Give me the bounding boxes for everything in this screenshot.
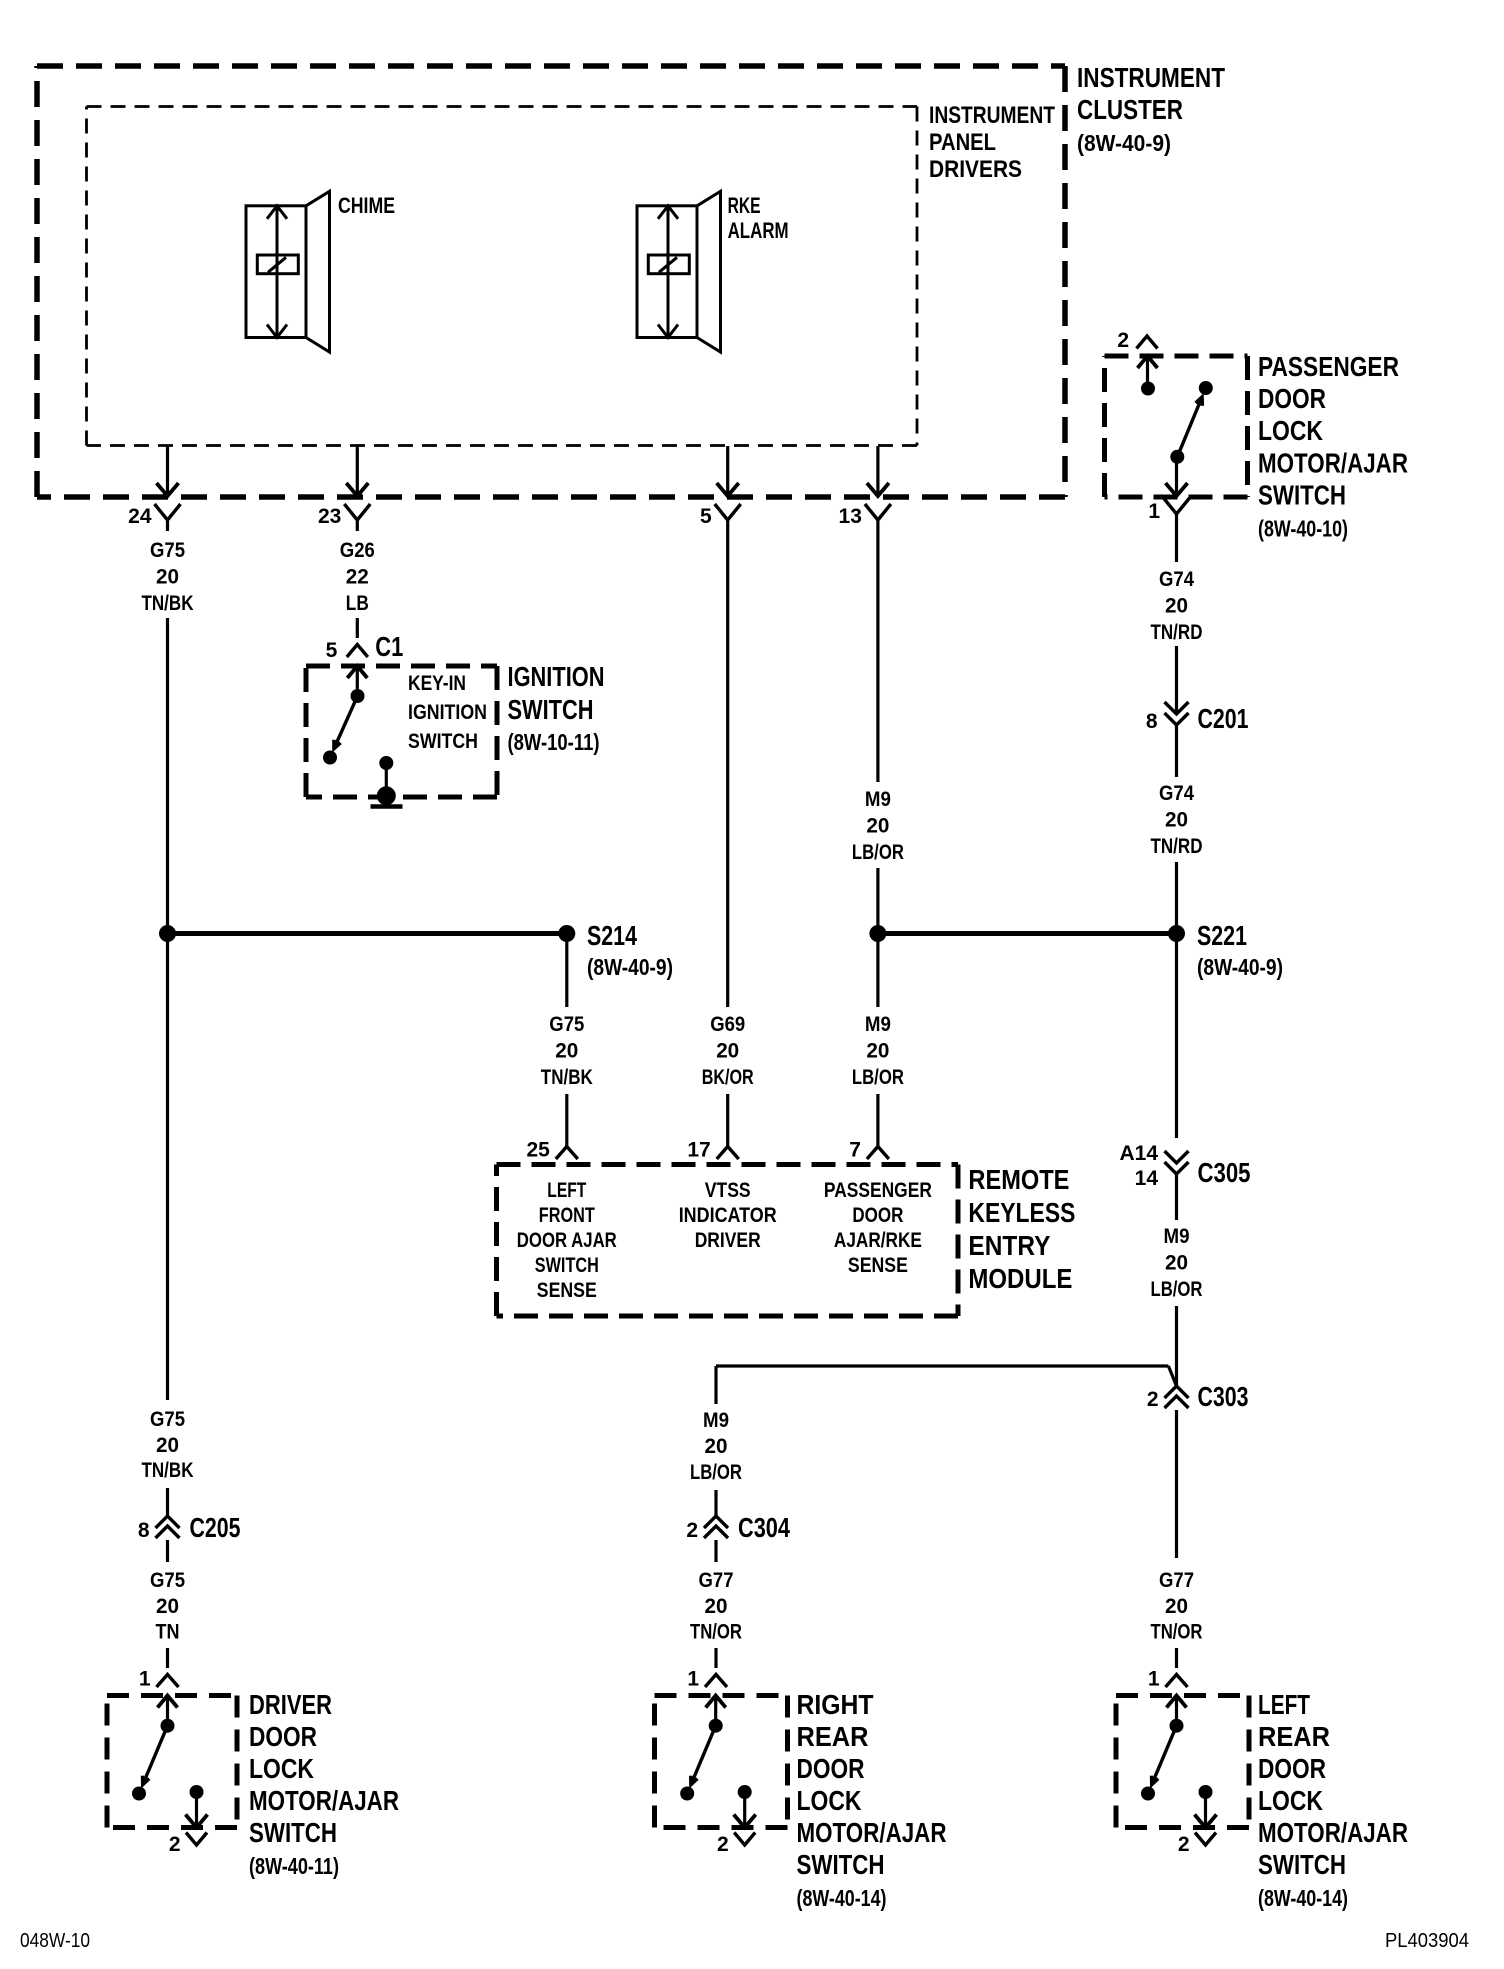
label PASSENGER DOOR LOCK MOTOR/AJAR SWITCH [1258,351,1408,542]
svg-text:TN/BK: TN/BK [142,592,194,615]
svg-text:8: 8 [138,1519,150,1542]
driver door lock motor/ajar switch ajar switch SW [132,1719,175,1801]
svg-text:G75: G75 [150,539,185,562]
svg-text:M9: M9 [865,1013,891,1036]
label INSTRUMENT PANEL DRIVERS [929,102,1055,183]
pin number 1 [687,1668,699,1691]
label left rear door lock motor/ajar switch [1258,1689,1408,1911]
svg-text:LOCK: LOCK [797,1785,862,1816]
svg-text:SWITCH: SWITCH [1258,1849,1346,1880]
chime indicator [246,191,330,352]
passenger pin 1 connector fork [1164,498,1190,525]
svg-text:M9: M9 [1164,1225,1190,1248]
wire M9 upper [876,531,879,782]
svg-text:G75: G75 [150,1569,185,1592]
svg-text:20: 20 [866,815,889,838]
svg-text:5: 5 [700,505,712,528]
svg-text:20: 20 [1165,809,1188,832]
svg-text:MOTOR/AJAR: MOTOR/AJAR [249,1785,399,1816]
pin number 2 [1178,1833,1190,1856]
svg-text:G69: G69 [710,1013,745,1036]
svg-text:REAR: REAR [1258,1721,1330,1752]
svg-text:PASSENGER: PASSENGER [1258,351,1399,382]
svg-text:DOOR: DOOR [797,1753,865,1784]
svg-text:PANEL: PANEL [929,129,996,156]
svg-text:(8W-40-14): (8W-40-14) [797,1885,887,1911]
wire [714,1540,717,1562]
right rear door lock motor/ajar switch ajar switch SW [680,1719,723,1801]
splice S214 wire [168,931,567,936]
svg-text:13: 13 [839,505,862,528]
wire label G75 20 TN/BK [142,539,194,615]
pin number A14 14 [1119,1142,1158,1190]
right rear door lock motor/ajar switch box (dashed) [655,1696,788,1828]
splice S214 dot [558,925,575,942]
svg-text:LB/OR: LB/OR [690,1461,742,1484]
svg-text:23: 23 [318,505,341,528]
svg-text:1: 1 [1148,1668,1160,1691]
pin number 1 [1148,500,1160,523]
ignition pin 5 arrow [347,666,367,689]
svg-text:PASSENGER: PASSENGER [824,1179,932,1202]
wire label G77 20 TN/OR (2) [690,1569,742,1644]
svg-text:TN/BK: TN/BK [142,1459,194,1482]
label INSTRUMENT CLUSTER [1077,62,1225,156]
wire label G74 20 TN/RD [1151,568,1203,644]
cluster pin 24 connector fork [155,504,181,531]
svg-text:MOTOR/AJAR: MOTOR/AJAR [1258,1817,1408,1848]
wire label G69 20 BK/OR [702,1013,754,1089]
wire [714,1490,717,1516]
svg-text:DOOR: DOOR [852,1204,903,1227]
svg-text:SWITCH: SWITCH [408,730,478,753]
svg-text:G75: G75 [549,1013,584,1036]
svg-text:2: 2 [169,1833,181,1856]
svg-text:INSTRUMENT: INSTRUMENT [929,102,1055,129]
svg-text:20: 20 [705,1595,728,1618]
left rear pin 1 connector [1166,1675,1188,1688]
passenger pin 1 arrow [1166,462,1188,496]
pin number 1 [1148,1668,1160,1691]
svg-text:G75: G75 [150,1408,185,1431]
label S221 [1197,920,1283,980]
svg-text:5: 5 [326,639,338,662]
svg-text:2: 2 [1147,1388,1159,1411]
svg-text:1: 1 [687,1668,699,1691]
wire [714,1366,717,1404]
svg-text:KEY-IN: KEY-IN [408,672,466,695]
cluster pin 23 arrow [346,446,368,496]
cluster pin 24 arrow [157,446,179,496]
left rear door lock motor/ajar switch motor contact dot [1199,1785,1213,1799]
connector C1 pin 5 [347,645,368,658]
wire label M9 20 LB/OR (3) [1151,1225,1203,1301]
pin number 2 [169,1833,181,1856]
wire [166,1540,169,1562]
cluster pin 23 connector fork [344,504,370,531]
svg-text:(8W-40-11): (8W-40-11) [249,1853,339,1879]
label LEFT FRONT DOOR AJAR SWITCH SENSE [517,1179,617,1302]
svg-text:2: 2 [686,1519,698,1542]
right rear door lock motor/ajar switch pin 2 arrow [734,1792,756,1828]
passenger pin 2 connector [1137,336,1158,349]
label CHIME [338,193,395,218]
pin number 5 [700,505,712,528]
svg-text:SWITCH: SWITCH [508,694,594,725]
left rear door lock motor/ajar switch ajar switch SW [1141,1719,1184,1801]
left rear door lock motor/ajar switch box (dashed) [1116,1696,1249,1828]
connector C205 [156,1516,180,1538]
sheet number 048W-10 [20,1930,90,1952]
driver door lock motor/ajar switch pin 1 arrow [158,1696,178,1720]
right rear door lock motor/ajar switch pin 1 arrow [706,1696,726,1720]
svg-text:1: 1 [1148,500,1160,523]
svg-text:20: 20 [1165,1252,1188,1275]
pin number 5 [326,639,338,662]
label C205 [190,1512,241,1543]
pin number 2 [1147,1388,1159,1411]
svg-text:22: 22 [346,566,369,589]
svg-text:2: 2 [1117,329,1129,352]
driver door lock motor/ajar switch pin 2 arrow [186,1792,208,1828]
pin number 8 [1146,710,1158,733]
RKE pin 7 connector [867,1147,889,1160]
svg-text:SWITCH: SWITCH [249,1817,337,1848]
wire label G74 20 TN/RD (2) [1151,782,1203,858]
svg-text:SWITCH: SWITCH [797,1849,885,1880]
wire [1175,1306,1178,1386]
instrument cluster box (dashed) [37,66,1065,497]
svg-text:C201: C201 [1198,703,1249,734]
svg-text:7: 7 [849,1139,861,1162]
splice junction dot [159,925,176,942]
svg-text:CHIME: CHIME [338,193,395,218]
svg-text:SWITCH: SWITCH [535,1254,599,1277]
svg-text:LEFT: LEFT [547,1179,586,1202]
svg-text:C305: C305 [1198,1157,1251,1188]
splice S221 wire [878,931,1177,936]
passenger door lock box (dashed) [1105,356,1248,497]
pin number 13 [839,505,862,528]
svg-text:1: 1 [139,1668,151,1691]
svg-text:DRIVER: DRIVER [695,1229,761,1252]
svg-text:TN/RD: TN/RD [1151,835,1203,858]
svg-text:PL403904: PL403904 [1385,1930,1469,1952]
wire label G75 20 TN [150,1569,185,1644]
pin number 7 [849,1139,861,1162]
svg-text:M9: M9 [865,788,891,811]
svg-text:TN/OR: TN/OR [690,1621,742,1644]
pin number 1 [139,1668,151,1691]
left rear door lock motor/ajar switch pin 2 arrow [1195,1792,1217,1828]
svg-text:DRIVER: DRIVER [249,1689,332,1720]
ground [371,786,403,806]
svg-text:VTSS: VTSS [705,1179,751,1202]
key-in switch SW [323,689,365,765]
wire [1175,1648,1178,1668]
svg-text:C205: C205 [190,1512,241,1543]
svg-text:LOCK: LOCK [1258,1785,1323,1816]
svg-text:C304: C304 [738,1512,790,1543]
svg-text:IGNITION: IGNITION [508,661,605,692]
label right rear door lock motor/ajar switch [797,1689,947,1911]
wire [1175,725,1178,777]
svg-text:SENSE: SENSE [537,1279,597,1302]
drawing number PL403904 [1385,1930,1469,1952]
svg-text:A14: A14 [1119,1142,1158,1165]
wire [166,618,169,1400]
wire [1175,862,1178,934]
svg-text:(8W-40-9): (8W-40-9) [1197,954,1283,980]
wire label M9 20 LB/OR [852,788,904,864]
wire [726,1094,729,1147]
svg-text:LOCK: LOCK [249,1753,314,1784]
svg-text:G74: G74 [1159,782,1194,805]
wire label M9 20 LB/OR (4) [690,1409,742,1484]
right rear door lock motor/ajar switch motor contact dot [738,1785,752,1799]
svg-text:INSTRUMENT: INSTRUMENT [1077,62,1225,93]
wire [876,1094,879,1147]
pin number 24 [128,505,152,528]
connector C304 [704,1516,728,1538]
pin number 17 [687,1139,710,1162]
svg-text:FRONT: FRONT [539,1204,595,1227]
label RKE ALARM [728,193,789,243]
svg-text:ENTRY: ENTRY [968,1230,1050,1261]
driver door lock motor/ajar switch pin 2 connector [186,1833,207,1846]
svg-text:DOOR: DOOR [1258,1753,1326,1784]
label VTSS INDICATOR DRIVER [679,1179,777,1252]
svg-text:048W-10: 048W-10 [20,1930,90,1952]
connector C303 [1165,1386,1189,1408]
right rear door lock motor/ajar switch pin 2 connector [734,1833,755,1846]
svg-text:LB/OR: LB/OR [1151,1278,1203,1301]
svg-text:DOOR AJAR: DOOR AJAR [517,1229,617,1252]
branch wire to C304 [716,1366,1177,1386]
pin number 25 [526,1139,550,1162]
svg-text:8: 8 [1146,710,1158,733]
svg-text:RKE: RKE [728,193,761,218]
svg-text:G26: G26 [340,539,375,562]
svg-text:LB/OR: LB/OR [852,841,904,864]
svg-text:20: 20 [705,1435,728,1458]
wire [1175,1410,1178,1558]
wire [1175,1174,1178,1220]
wire [876,934,879,1008]
label IGNITION SWITCH [508,661,605,755]
wire label G26 22 LB [340,539,375,615]
left rear door lock motor/ajar switch pin 1 arrow [1167,1696,1187,1720]
svg-text:SENSE: SENSE [848,1254,908,1277]
svg-text:LB/OR: LB/OR [852,1066,904,1089]
pin number 2 [1117,329,1129,352]
svg-text:ALARM: ALARM [728,218,789,243]
cluster pin 5 connector fork [715,504,741,531]
svg-text:25: 25 [526,1139,550,1162]
svg-text:C303: C303 [1198,1381,1249,1412]
wire [1175,934,1178,1139]
RKE pin 17 connector [717,1147,739,1160]
wire [356,618,359,638]
svg-text:20: 20 [866,1040,889,1063]
wire [166,1648,169,1668]
svg-text:DRIVERS: DRIVERS [929,156,1022,183]
svg-text:AJAR/RKE: AJAR/RKE [834,1229,922,1252]
label C303 [1198,1381,1249,1412]
wire G69 [726,531,729,1007]
svg-text:20: 20 [156,1434,179,1457]
label driver door lock motor/ajar switch [249,1689,399,1879]
cluster pin 5 arrow [717,446,739,496]
cluster pin 13 arrow [867,446,889,496]
label REMOTE KEYLESS ENTRY MODULE [968,1164,1075,1294]
svg-text:RIGHT: RIGHT [797,1689,874,1720]
wire [565,1094,568,1147]
svg-text:G77: G77 [699,1569,734,1592]
RKE alarm indicator [637,191,721,352]
driver pin 1 connector [157,1675,179,1688]
svg-text:2: 2 [1178,1833,1190,1856]
wire [1175,646,1178,714]
connector C201 [1165,702,1189,725]
RKE pin 25 connector [556,1147,578,1160]
svg-text:C1: C1 [375,631,403,662]
pin number 23 [318,505,341,528]
svg-text:(8W-40-14): (8W-40-14) [1258,1885,1348,1911]
svg-text:S214: S214 [587,920,637,951]
wire label G75 20 TN/BK (3) [541,1013,593,1089]
pin number 8 [138,1519,150,1542]
splice S221 dot [1168,925,1185,942]
svg-text:TN: TN [156,1621,180,1644]
wire label G75 20 TN/BK (2) [142,1408,194,1482]
label S214 [587,920,673,980]
cluster pin 13 connector fork [865,504,891,531]
svg-text:REAR: REAR [797,1721,869,1752]
svg-text:20: 20 [716,1040,739,1063]
svg-text:(8W-40-9): (8W-40-9) [587,954,673,980]
ignition contact dot [379,756,393,770]
svg-text:LOCK: LOCK [1258,415,1323,446]
svg-text:G74: G74 [1159,568,1194,591]
svg-text:24: 24 [128,505,152,528]
svg-text:TN/RD: TN/RD [1151,621,1203,644]
svg-text:MOTOR/AJAR: MOTOR/AJAR [1258,447,1408,478]
svg-text:20: 20 [1165,1595,1188,1618]
driver door lock motor/ajar switch motor contact dot [190,1785,204,1799]
svg-text:M9: M9 [703,1409,729,1432]
splice junction dot [869,925,886,942]
wire to ground [385,763,388,790]
ignition switch box (dashed) [306,666,497,797]
remote keyless entry module box (dashed) [497,1165,959,1317]
svg-text:TN/OR: TN/OR [1151,1621,1203,1644]
label C305 [1198,1157,1251,1188]
svg-text:IGNITION: IGNITION [408,701,487,724]
label KEY-IN IGNITION SWITCH [408,672,487,753]
wire G74 segment [1175,525,1178,562]
svg-text:CLUSTER: CLUSTER [1077,94,1183,125]
svg-text:20: 20 [156,566,179,589]
svg-text:BK/OR: BK/OR [702,1066,754,1089]
svg-text:20: 20 [156,1595,179,1618]
pin number 2 [717,1833,729,1856]
svg-text:(8W-40-9): (8W-40-9) [1077,130,1171,156]
passenger pin 2 dot [1141,382,1155,396]
driver door lock motor/ajar switch box (dashed) [107,1696,237,1828]
wire [714,1648,717,1668]
wire label M9 20 LB/OR (2) [852,1013,904,1089]
svg-text:S221: S221 [1197,920,1247,951]
svg-text:LEFT: LEFT [1258,1689,1310,1720]
svg-text:DOOR: DOOR [1258,383,1326,414]
svg-text:SWITCH: SWITCH [1258,480,1346,511]
wire label G77 20 TN/OR [1151,1569,1203,1644]
wire [166,1488,169,1516]
svg-text:KEYLESS: KEYLESS [968,1197,1075,1228]
svg-text:TN/BK: TN/BK [541,1066,593,1089]
svg-text:20: 20 [1165,595,1188,618]
label C201 [1198,703,1249,734]
pin number 2 [686,1519,698,1542]
svg-text:DOOR: DOOR [249,1721,317,1752]
svg-text:(8W-40-10): (8W-40-10) [1258,516,1348,542]
svg-text:14: 14 [1135,1167,1159,1190]
passenger pin 2 arrow [1138,356,1158,382]
label C304 [738,1512,790,1543]
svg-text:MODULE: MODULE [968,1263,1072,1294]
instrument panel drivers box (dashed) [87,107,918,446]
svg-text:LB: LB [346,592,369,615]
svg-text:20: 20 [555,1040,578,1063]
wire from S214 [565,942,568,1007]
svg-text:17: 17 [687,1139,710,1162]
right rear pin 1 connector [705,1675,727,1688]
connector C305 [1165,1151,1189,1174]
wire [876,868,879,934]
svg-text:2: 2 [717,1833,729,1856]
label C1 [375,631,403,662]
label PASSENGER DOOR AJAR/RKE SENSE [824,1179,932,1277]
svg-text:REMOTE: REMOTE [968,1164,1069,1195]
svg-text:(8W-10-11): (8W-10-11) [508,729,600,755]
svg-text:MOTOR/AJAR: MOTOR/AJAR [797,1817,947,1848]
left rear door lock motor/ajar switch pin 2 connector [1195,1833,1216,1846]
svg-text:INDICATOR: INDICATOR [679,1204,777,1227]
passenger ajar switch SW [1170,381,1213,464]
svg-text:G77: G77 [1159,1569,1194,1592]
